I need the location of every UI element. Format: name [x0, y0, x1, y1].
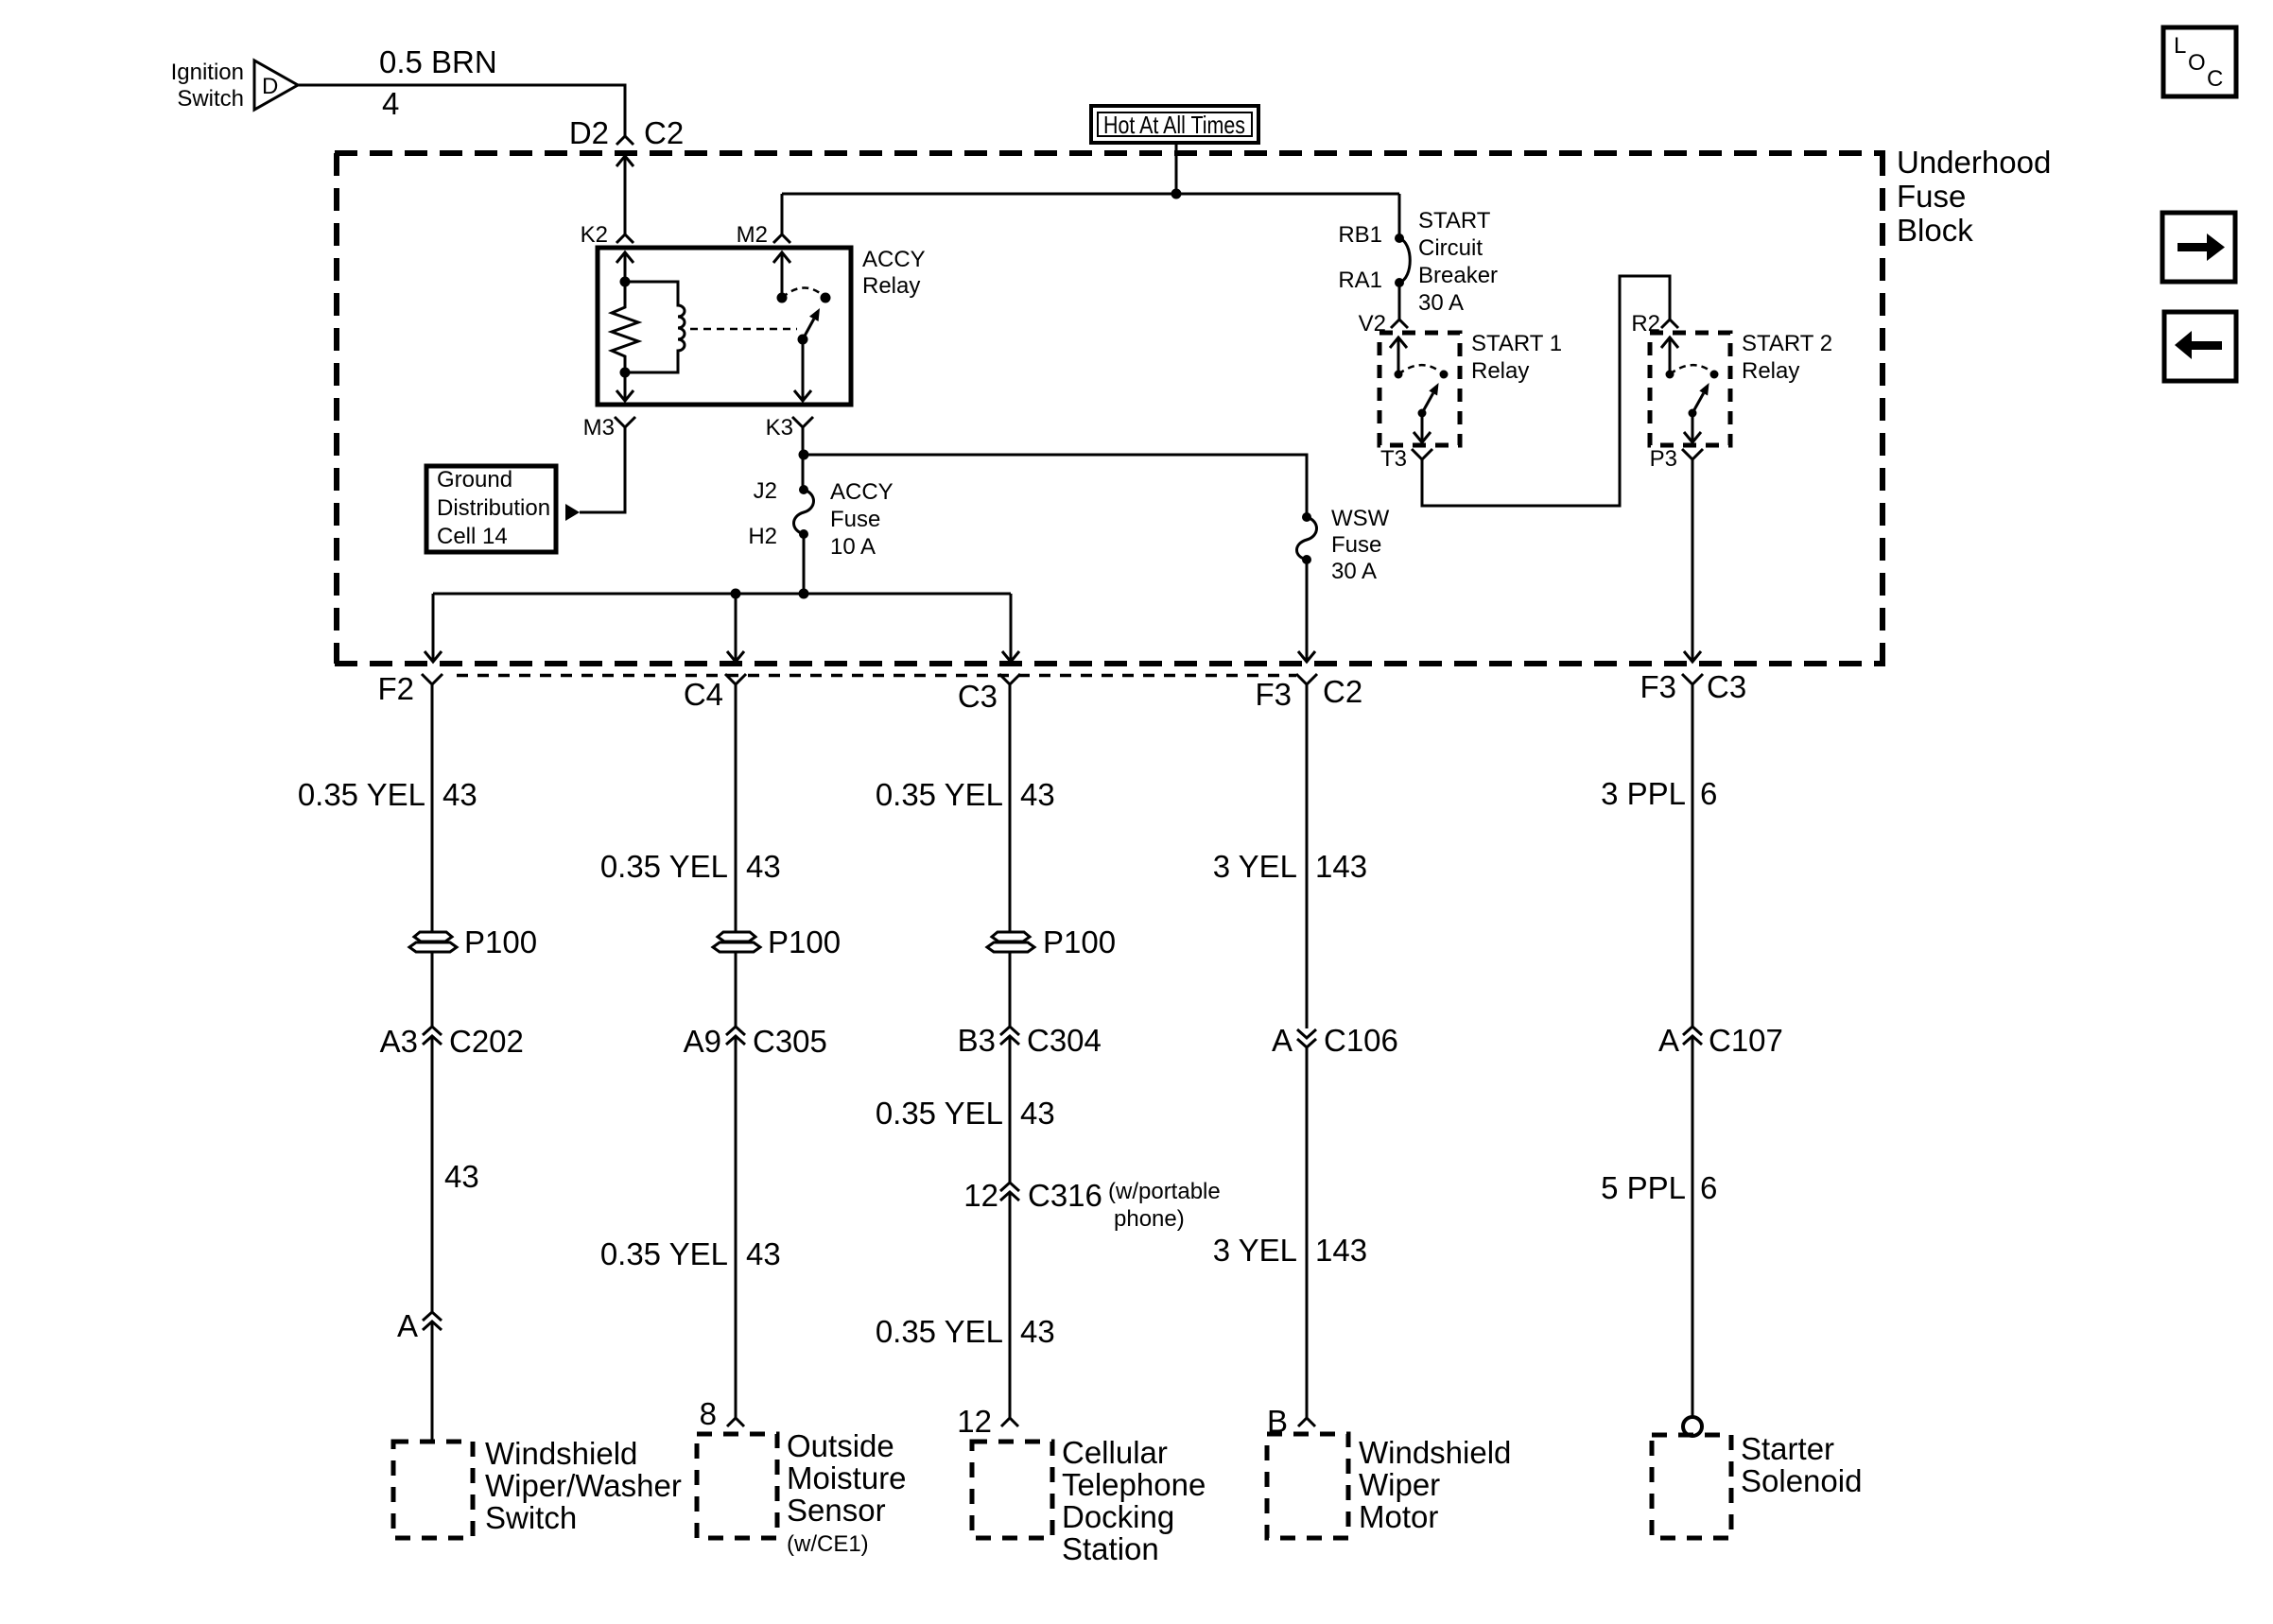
svg-text:0.35 YEL: 0.35 YEL [298, 777, 425, 812]
svg-text:0.35 YEL: 0.35 YEL [600, 1236, 728, 1271]
connector row thin dashed line [457, 674, 1296, 678]
dashed actuation arc ACCY relay [782, 287, 824, 298]
node switch common [777, 293, 788, 303]
node coil top [620, 277, 631, 287]
svg-text:RA1: RA1 [1338, 268, 1382, 293]
svg-text:30 A: 30 A [1418, 290, 1464, 316]
svg-text:Wiper/Washer: Wiper/Washer [485, 1468, 682, 1503]
connector A column1 [397, 1308, 442, 1343]
svg-text:F3: F3 [1640, 669, 1676, 704]
LOC reference box [2163, 27, 2236, 96]
svg-text:Telephone: Telephone [1062, 1467, 1206, 1502]
label 0.35 YEL 43 column2 [600, 849, 781, 884]
node START2 common [1666, 371, 1674, 379]
wire T3 to R2 link [1422, 276, 1670, 506]
dashed actuation arc START1 [1398, 365, 1440, 374]
svg-text:WSW: WSW [1331, 506, 1390, 531]
svg-text:143: 143 [1315, 1233, 1367, 1268]
dashed actuation arc START2 [1670, 365, 1711, 374]
wire column 1 upper [431, 684, 434, 932]
svg-text:K2: K2 [581, 222, 608, 248]
node coil bottom [620, 368, 631, 378]
wire column 3 lower [1009, 1192, 1012, 1418]
ACCY Fuse 10 A [748, 478, 893, 560]
svg-text:A3: A3 [380, 1024, 418, 1059]
label 0.35 YEL 43 column1 [298, 777, 477, 812]
svg-text:3 PPL: 3 PPL [1601, 776, 1686, 811]
svg-text:8: 8 [700, 1396, 717, 1431]
Windshield Wiper/Washer Switch box [393, 1436, 682, 1538]
svg-text:Station: Station [1062, 1531, 1159, 1566]
resistor inside ACCY relay [612, 282, 638, 372]
underhood fuse block dashed border [335, 153, 1885, 664]
label 3 YEL 143 column4 [1213, 849, 1367, 884]
relay coil-side entry arrow K2 [616, 252, 633, 280]
label 0.35 YEL 43 column3 mid [876, 1096, 1055, 1131]
Ground Distribution Cell 14 box [426, 466, 556, 552]
wire column 1 mid [431, 952, 434, 1027]
forward arrow box [2162, 213, 2235, 282]
svg-text:A9: A9 [684, 1024, 721, 1059]
connector R2 [1631, 311, 1678, 337]
svg-text:Ignition: Ignition [171, 60, 244, 85]
node junction on power bus [1171, 189, 1182, 199]
connector V2 [1359, 311, 1408, 337]
connector A/C107 [1658, 1023, 1783, 1058]
svg-text:(w/CE1): (w/CE1) [787, 1531, 869, 1557]
connector M2 [737, 222, 790, 248]
svg-text:3 YEL: 3 YEL [1213, 849, 1297, 884]
wire bus to C4 with arrow [727, 594, 744, 662]
wire column 2 mid [735, 952, 737, 1027]
wire column 3 mid [1009, 952, 1012, 1027]
connector M3 [583, 415, 635, 441]
svg-text:P100: P100 [1043, 924, 1116, 959]
wire pivot to K3 exit arrow [794, 339, 811, 401]
pin B connector column4 [1267, 1404, 1315, 1439]
svg-text:6: 6 [1700, 776, 1717, 811]
svg-text:T3: T3 [1380, 446, 1407, 472]
wire bus to F2 with arrow [425, 594, 442, 662]
Starter Solenoid box [1652, 1431, 1862, 1538]
wire column 3 mid2 [1009, 1036, 1012, 1183]
svg-text:6: 6 [1700, 1170, 1717, 1205]
svg-text:0.35 YEL: 0.35 YEL [876, 1096, 1003, 1131]
wire M3 to ground distribution [580, 427, 625, 512]
relay switch-side entry arrow M2 [773, 252, 790, 298]
START1 entry arrow [1390, 337, 1407, 374]
wire K3 down to ACCY fuse [802, 427, 805, 490]
svg-text:START 2: START 2 [1742, 331, 1832, 356]
label 0.35 YEL 43 column2 lower [600, 1236, 781, 1271]
wire entering fuse block at C2 (up arrow) down to K2 [616, 156, 633, 234]
node switch pivot [798, 335, 808, 345]
svg-text:C107: C107 [1709, 1023, 1783, 1058]
svg-text:Ground: Ground [437, 467, 512, 492]
svg-text:START: START [1418, 208, 1491, 233]
svg-text:Docking: Docking [1062, 1499, 1174, 1534]
node K3 branch junction [799, 450, 809, 460]
svg-text:0.35 YEL: 0.35 YEL [600, 849, 728, 884]
node START1 contact [1440, 371, 1449, 379]
wire branch to WSW fuse [804, 455, 1307, 517]
START 2 Relay dashed box [1650, 331, 1832, 445]
pin 8 connector column2 [700, 1396, 744, 1431]
svg-text:Breaker: Breaker [1418, 263, 1498, 288]
wire bus to C3 with arrow [1002, 594, 1019, 662]
relay coil winding [625, 282, 685, 372]
svg-text:Relay: Relay [862, 273, 920, 299]
wire breaker to V2 [1398, 283, 1401, 320]
svg-text:3 YEL: 3 YEL [1213, 1233, 1297, 1268]
svg-text:C3: C3 [1707, 669, 1746, 704]
ground distribution arrow triangle [565, 504, 580, 521]
svg-text:B3: B3 [958, 1023, 996, 1058]
dashed coil link line [690, 328, 797, 331]
svg-text:C2: C2 [644, 115, 684, 150]
svg-text:43: 43 [746, 849, 781, 884]
svg-text:C304: C304 [1027, 1023, 1102, 1058]
svg-text:Underhood: Underhood [1897, 145, 2051, 180]
svg-text:Distribution: Distribution [437, 495, 550, 521]
svg-text:30 A: 30 A [1331, 559, 1377, 584]
svg-text:4: 4 [382, 86, 399, 121]
START1 switch blade [1422, 383, 1439, 413]
svg-text:C106: C106 [1324, 1023, 1398, 1058]
label 3 YEL 143 column4 lower [1213, 1233, 1367, 1268]
svg-text:10 A: 10 A [830, 534, 876, 560]
svg-text:ACCY: ACCY [862, 247, 926, 272]
svg-text:0.5 BRN: 0.5 BRN [379, 44, 497, 79]
svg-text:12: 12 [957, 1404, 992, 1439]
connector C3 [958, 674, 1020, 714]
grommet P100 column1 [409, 924, 537, 959]
connector P3 [1650, 446, 1703, 472]
wire column 2 lower [735, 1036, 737, 1418]
svg-text:Block: Block [1897, 213, 1973, 248]
ignition switch triangle symbol D [171, 60, 298, 112]
grommet P100 column2 [713, 924, 841, 959]
node START1 common [1395, 371, 1403, 379]
svg-text:43: 43 [442, 777, 477, 812]
svg-text:J2: J2 [754, 478, 777, 504]
svg-text:A: A [397, 1308, 418, 1343]
svg-text:M2: M2 [737, 222, 768, 248]
Hot At All Times box [1091, 106, 1258, 143]
connector K3 [766, 415, 813, 441]
wire column 1 into switch box [431, 1322, 434, 1442]
power bus wire inside fuse block [782, 193, 1399, 196]
connector B3/C304 [958, 1023, 1102, 1058]
svg-text:Windshield: Windshield [1359, 1435, 1511, 1470]
svg-text:Outside: Outside [787, 1428, 894, 1463]
svg-text:Windshield: Windshield [485, 1436, 637, 1471]
svg-text:Circuit: Circuit [1418, 235, 1483, 261]
wire M2 drop from bus [781, 194, 784, 234]
svg-text:RB1: RB1 [1338, 222, 1382, 248]
START2 entry arrow [1661, 337, 1678, 374]
svg-text:P100: P100 [768, 924, 841, 959]
svg-text:P100: P100 [464, 924, 537, 959]
wire bus corner to START circuit breaker [1398, 194, 1401, 238]
wire column 4 upper [1306, 684, 1309, 1028]
svg-text:143: 143 [1315, 849, 1367, 884]
svg-text:D2: D2 [569, 115, 609, 150]
relay switch blade with arrowhead [803, 308, 820, 339]
svg-text:C305: C305 [753, 1024, 827, 1059]
wire WSW fuse to F3 with arrow [1298, 560, 1315, 662]
svg-text:C: C [2207, 66, 2223, 92]
pin 12 connector column3 [957, 1404, 1018, 1439]
ACCY Relay box [598, 247, 926, 405]
connector K2 [581, 222, 633, 248]
ring terminal column5 [1683, 1417, 1702, 1436]
wire column 2 upper [735, 684, 737, 932]
svg-text:C202: C202 [449, 1024, 524, 1059]
label 0.35 YEL 43 column3 [876, 777, 1055, 812]
distribution bus wire [433, 593, 1011, 596]
label 3 PPL 6 column5 [1601, 776, 1717, 811]
svg-text:12: 12 [963, 1178, 998, 1213]
svg-text:C316: C316 [1028, 1178, 1102, 1213]
connector A9/C305 [684, 1024, 827, 1059]
wire from Hot At All Times into fuse block [1175, 143, 1178, 194]
START Circuit Breaker 30 A [1338, 208, 1498, 316]
connector F3/C3 [1640, 669, 1746, 704]
svg-text:43: 43 [444, 1159, 479, 1194]
svg-text:P3: P3 [1650, 446, 1677, 472]
label Underhood Fuse Block [1897, 145, 2051, 248]
svg-text:A: A [1658, 1023, 1679, 1058]
connector A3/C202 [380, 1024, 524, 1059]
svg-text:Fuse: Fuse [830, 507, 880, 532]
node bus H2 [799, 589, 809, 599]
svg-text:K3: K3 [766, 415, 793, 441]
START2 switch blade [1692, 383, 1709, 413]
svg-text:0.35 YEL: 0.35 YEL [876, 1314, 1003, 1349]
connector F2 [377, 671, 442, 706]
START1 exit arrow to T3 [1414, 413, 1431, 442]
label 0.35 YEL 43 column3 lower [876, 1314, 1055, 1349]
connector D2/C2 [569, 115, 684, 150]
connector T3 [1380, 446, 1432, 472]
svg-text:Moisture: Moisture [787, 1460, 907, 1495]
svg-text:F3: F3 [1255, 677, 1292, 712]
Cellular Telephone Docking Station box [972, 1435, 1206, 1566]
WSW Fuse 30 A [1297, 506, 1390, 584]
wire ACCY fuse to distribution bus [803, 534, 806, 594]
svg-text:Cellular: Cellular [1062, 1435, 1168, 1470]
svg-text:Solenoid: Solenoid [1741, 1463, 1862, 1498]
svg-text:START 1: START 1 [1471, 331, 1562, 356]
node bus C4 [731, 589, 741, 599]
connector 12/C316 [963, 1178, 1220, 1232]
svg-text:C4: C4 [684, 677, 723, 712]
svg-text:Motor: Motor [1359, 1499, 1438, 1534]
svg-text:phone): phone) [1114, 1206, 1185, 1232]
connector A/C106 [1272, 1023, 1398, 1058]
wire 0.5 BRN circuit 4 from ignition switch to D2 [298, 44, 625, 136]
connector C4 [684, 674, 746, 712]
svg-text:43: 43 [1020, 1314, 1055, 1349]
connector F3/C2 [1255, 674, 1362, 712]
Windshield Wiper Motor box [1267, 1434, 1511, 1538]
svg-text:Sensor: Sensor [787, 1493, 886, 1528]
svg-text:F2: F2 [377, 671, 414, 706]
node START2 pivot [1689, 409, 1697, 418]
svg-text:Relay: Relay [1742, 358, 1799, 384]
node START1 pivot [1418, 409, 1427, 418]
label 5 PPL 6 column5 [1601, 1170, 1717, 1205]
svg-text:Hot At All Times: Hot At All Times [1103, 111, 1245, 139]
wire column 5 lower [1692, 1036, 1694, 1417]
START 1 Relay dashed box [1379, 331, 1562, 445]
svg-text:O: O [2188, 50, 2206, 76]
svg-text:D: D [262, 74, 278, 99]
svg-text:M3: M3 [583, 415, 615, 441]
svg-text:ACCY: ACCY [830, 479, 894, 505]
svg-text:Cell 14: Cell 14 [437, 524, 508, 549]
svg-text:Starter: Starter [1741, 1431, 1834, 1466]
svg-text:43: 43 [746, 1236, 781, 1271]
node switch contact [821, 293, 831, 303]
wire column 4 lower [1306, 1047, 1309, 1418]
svg-text:L: L [2174, 33, 2186, 59]
wire P3 down to F3 with arrow [1684, 459, 1701, 662]
svg-text:Fuse: Fuse [1897, 179, 1966, 214]
START2 exit arrow to P3 [1684, 413, 1701, 442]
node START2 contact [1710, 371, 1719, 379]
back arrow box [2164, 312, 2236, 381]
wire coil to M3 exit arrow [616, 372, 633, 401]
svg-text:C2: C2 [1323, 674, 1362, 709]
svg-text:Switch: Switch [485, 1500, 577, 1535]
grommet P100 column3 [987, 924, 1116, 959]
svg-text:(w/portable: (w/portable [1108, 1179, 1221, 1204]
wire column 1 lower [431, 1036, 434, 1312]
wire column 5 upper [1692, 684, 1694, 1027]
Outside Moisture Sensor box [697, 1428, 907, 1557]
svg-text:Switch: Switch [177, 86, 244, 112]
wire column 3 upper [1009, 684, 1012, 932]
svg-text:Wiper: Wiper [1359, 1467, 1440, 1502]
svg-text:Fuse: Fuse [1331, 532, 1381, 558]
svg-text:Relay: Relay [1471, 358, 1529, 384]
svg-text:43: 43 [1020, 777, 1055, 812]
svg-text:5 PPL: 5 PPL [1601, 1170, 1686, 1205]
svg-text:A: A [1272, 1023, 1293, 1058]
svg-text:H2: H2 [748, 524, 777, 549]
svg-text:43: 43 [1020, 1096, 1055, 1131]
svg-text:C3: C3 [958, 679, 998, 714]
svg-text:0.35 YEL: 0.35 YEL [876, 777, 1003, 812]
